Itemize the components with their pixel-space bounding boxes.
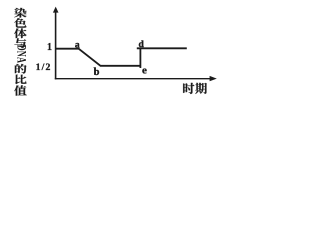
svg-text:d: d [139, 40, 145, 50]
curve vertical jump e to d [139, 48, 141, 68]
y-axis line [55, 10, 57, 80]
y-axis title char 染 [14, 8, 26, 18]
x-axis label char 时 [183, 83, 194, 94]
y-axis title char 体 [14, 28, 27, 38]
y-axis title char 比 [15, 75, 26, 85]
curve top flat segment after d [137, 47, 187, 49]
svg-text:b: b [94, 67, 100, 78]
y-axis arrowhead [53, 7, 59, 13]
svg-text:1: 1 [47, 42, 52, 53]
y-axis title char 的 [15, 64, 27, 74]
y-axis title char 色 [14, 18, 26, 27]
y-axis title char 值 [14, 85, 27, 95]
x-axis line [55, 78, 213, 80]
curve segment level1 flat a, descent to b, level1/2 flat to e [56, 49, 141, 66]
x-axis arrowhead [210, 76, 217, 81]
svg-text:1/2: 1/2 [36, 62, 52, 73]
y-axis title char 与 [14, 38, 26, 48]
svg-text:DNA: DNA [14, 45, 27, 64]
svg-text:e: e [142, 65, 147, 77]
svg-text:a: a [75, 40, 80, 50]
x-axis label char 期 [195, 83, 207, 94]
